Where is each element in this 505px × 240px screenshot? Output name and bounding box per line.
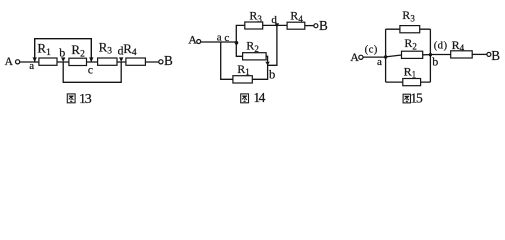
svg-text:(c): (c): [365, 44, 378, 56]
svg-text:R3: R3: [249, 9, 262, 24]
terminal A (fig15): [350, 50, 363, 64]
svg-text:R1: R1: [404, 64, 417, 79]
node c junction arrow (fig13): [89, 57, 93, 62]
wire A to node a (fig15): [363, 56, 386, 58]
resistor R2 (fig13): [69, 58, 87, 65]
caption fig 14: [241, 90, 266, 105]
resistor R3 (fig15): [400, 26, 420, 33]
caption fig 13: [67, 92, 92, 107]
svg-text:13: 13: [79, 92, 92, 107]
svg-text:R2: R2: [404, 36, 417, 51]
wire top loop a-c (fig13): [35, 39, 92, 62]
wire R4 to terminal B (fig15): [472, 53, 487, 55]
svg-text:15: 15: [410, 90, 423, 105]
terminal A (fig13): [5, 56, 20, 68]
caption fig 15: [403, 90, 423, 105]
svg-text:a: a: [217, 31, 222, 43]
svg-text:d: d: [271, 14, 277, 26]
svg-text:A: A: [350, 50, 359, 64]
terminal A (fig14): [188, 33, 200, 47]
svg-text:R4: R4: [290, 9, 303, 24]
svg-text:B: B: [164, 53, 173, 68]
terminal B (fig13): [159, 53, 173, 68]
node b junction arrow (fig13): [61, 57, 65, 62]
svg-text:c: c: [224, 32, 229, 44]
terminal B (fig14): [314, 18, 328, 33]
wire c riser R3 to R2 branch (fig14): [236, 25, 245, 56]
resistor R1 (fig15): [403, 79, 421, 86]
wire R2 right drop to R1 (fig14): [252, 56, 267, 79]
resistor R4 (fig13): [126, 58, 145, 65]
node d junction arrow (fig14): [275, 23, 279, 27]
resistor R2 (fig15): [402, 51, 423, 58]
node b junction arrow (fig14): [265, 62, 269, 66]
terminal B (fig15): [487, 48, 500, 63]
svg-text:R2: R2: [246, 39, 259, 54]
node a junction dot (fig15): [384, 55, 387, 58]
wire main line A to B (fig13): [20, 61, 159, 63]
svg-text:c: c: [88, 65, 93, 77]
wire a riser down to R1 branch (fig14): [221, 42, 233, 79]
wire right rail (fig15): [429, 29, 431, 82]
resistor R3 (fig14): [245, 22, 263, 29]
resistor R2 (fig14): [243, 53, 267, 60]
svg-text:(d): (d): [434, 40, 448, 52]
resistor R4 (fig14): [287, 22, 305, 29]
svg-text:R1: R1: [37, 41, 51, 58]
svg-text:R1: R1: [237, 62, 250, 77]
wire top branch (fig15): [386, 28, 431, 30]
svg-text:R3: R3: [402, 8, 415, 23]
svg-text:B: B: [319, 18, 328, 33]
svg-text:A: A: [188, 33, 197, 47]
node a junction arrow (fig13): [33, 57, 37, 62]
node c junction dot (fig14): [235, 41, 239, 45]
wire left rail (fig15): [385, 29, 387, 82]
wire R3 to R4 through node d (fig14): [263, 24, 287, 26]
wire R4 to terminal B (fig14): [305, 25, 314, 27]
svg-text:R3: R3: [99, 39, 113, 56]
wire node b to R4 (fig15): [430, 54, 450, 56]
svg-text:A: A: [5, 56, 14, 68]
svg-text:R2: R2: [71, 42, 85, 59]
wire bottom loop b-d (fig13): [63, 62, 121, 83]
svg-text:d: d: [118, 45, 124, 57]
svg-text:b: b: [269, 67, 275, 81]
wire d rail down to node b stub (fig14): [268, 25, 277, 65]
svg-text:a: a: [377, 56, 382, 68]
resistor R1 (fig14): [233, 76, 252, 83]
svg-text:R4: R4: [452, 38, 465, 53]
svg-text:a: a: [29, 60, 34, 72]
svg-text:b: b: [59, 46, 65, 60]
resistor R1 (fig13): [39, 58, 57, 65]
svg-text:R4: R4: [123, 41, 137, 58]
wire middle branch (fig15): [386, 55, 431, 57]
resistor R4 (fig15): [451, 51, 473, 58]
node b junction dot (fig15): [429, 53, 432, 56]
svg-text:b: b: [432, 55, 438, 69]
svg-text:14: 14: [253, 90, 265, 105]
resistor R3 (fig13): [98, 58, 117, 65]
node d junction arrow (fig13): [119, 57, 123, 62]
wire bottom branch (fig15): [386, 81, 431, 83]
wire main line A to c (fig14): [201, 41, 237, 43]
svg-text:B: B: [491, 48, 500, 63]
